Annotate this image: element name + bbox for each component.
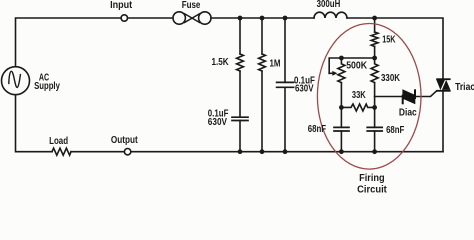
wire pot-cap left	[340, 107, 342, 127]
node 33K right	[372, 105, 377, 110]
junction dots	[238, 16, 377, 155]
wire R2 to bottom	[261, 71, 263, 152]
node top A	[238, 16, 243, 21]
node Input terminal	[121, 15, 127, 21]
node bottom B	[260, 149, 265, 154]
node bottom E	[339, 149, 344, 154]
wire branch B vertical top (1M)	[261, 18, 263, 54]
diac D1	[402, 89, 416, 104]
wire branch D vertical top (15K)	[374, 18, 376, 32]
svg-text:Firing: Firing	[359, 173, 385, 184]
node 33K left	[339, 105, 344, 110]
svg-text:1M: 1M	[270, 58, 281, 69]
wire fuse to inductor	[211, 17, 314, 19]
svg-text:Input: Input	[110, 0, 133, 11]
node bottom F	[372, 149, 377, 154]
svg-text:630V: 630V	[295, 84, 314, 95]
svg-text:Circuit: Circuit	[357, 184, 387, 195]
node bottom C	[283, 149, 288, 154]
wire C4 to bottom	[374, 131, 376, 152]
node top B	[260, 16, 265, 21]
wire C2 to bottom	[284, 87, 286, 151]
node bottom A	[238, 149, 243, 154]
inductor L1 300uH	[314, 12, 347, 18]
resistor R1 1.5K	[237, 54, 244, 71]
wire C1 to bottom	[239, 121, 241, 152]
capacitor C2 0.1uF 630V	[277, 82, 294, 87]
wire branch A vertical top (1.5K)	[239, 18, 241, 54]
capacitor C4 68nF right	[367, 127, 382, 131]
wire branch C vertical top (0.1uF)	[284, 18, 286, 82]
wire R3 to node row	[374, 47, 376, 59]
wire 330K-cap right	[374, 107, 376, 127]
wire bottom-left	[16, 95, 53, 152]
wire right vertical below triac	[442, 91, 444, 152]
wire top-left horizontal	[16, 18, 121, 67]
resistor Load	[52, 148, 71, 155]
svg-text:Diac: Diac	[399, 107, 417, 118]
wire pot top row	[329, 58, 374, 73]
wire diac to triac gate	[415, 91, 436, 97]
svg-text:500K: 500K	[346, 61, 368, 72]
pot wiper arrow	[329, 71, 337, 76]
wire load to output	[71, 151, 124, 153]
svg-text:33K: 33K	[352, 90, 366, 101]
node top C	[283, 16, 288, 21]
svg-text:Fuse: Fuse	[182, 0, 201, 11]
svg-text:330K: 330K	[381, 73, 401, 84]
svg-text:1.5K: 1.5K	[212, 57, 230, 68]
svg-text:68nF: 68nF	[386, 125, 404, 136]
capacitor C3 68nF left	[334, 127, 349, 131]
wire C3 to bottom	[340, 131, 342, 152]
wire inductor to right corner	[347, 18, 443, 79]
potentiometer VR1 500K	[338, 58, 345, 83]
svg-text:Output: Output	[111, 135, 138, 146]
fuse F1	[173, 12, 211, 24]
node pot top	[339, 56, 344, 61]
svg-text:68nF: 68nF	[308, 124, 326, 135]
svg-text:Supply: Supply	[34, 81, 60, 92]
capacitor C1 0.1uF 630V	[232, 117, 248, 120]
source AC Supply	[2, 67, 30, 95]
svg-text:15K: 15K	[382, 34, 396, 45]
triac Q1	[436, 78, 450, 91]
svg-text:Triac: Triac	[455, 82, 474, 93]
wire pot bottom	[340, 83, 342, 107]
wire bottom horizontal	[131, 151, 443, 153]
node top D	[372, 16, 377, 21]
resistor R3 15K	[371, 32, 378, 47]
wire R4 bottom to resistor row	[374, 83, 376, 107]
wire R1 to C1	[239, 71, 241, 117]
svg-text:630V: 630V	[208, 117, 227, 128]
node 15K bottom	[372, 56, 377, 61]
svg-text:Load: Load	[49, 136, 68, 147]
resistor R5 33K horizontal	[341, 104, 374, 111]
wire gate row to diac	[375, 96, 403, 98]
svg-text:300uH: 300uH	[317, 0, 341, 10]
firing circuit ellipse	[317, 24, 421, 170]
node Output terminal	[124, 149, 130, 155]
wire input to fuse	[128, 17, 173, 19]
resistor R2 1M	[259, 54, 266, 71]
resistor R4 330K	[371, 58, 378, 83]
